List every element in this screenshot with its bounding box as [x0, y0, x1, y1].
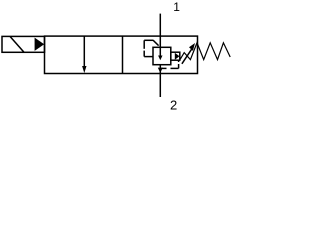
flow arrow inside relief square: [158, 47, 162, 60]
spring (zigzag): [180, 43, 230, 60]
spring chamber drain (dashed): [160, 60, 178, 68]
svg-text:2: 2: [170, 98, 177, 111]
solenoid diagonal stroke: [10, 37, 24, 53]
relief valve square body: [153, 47, 171, 64]
left position flow arrow (down): [82, 36, 86, 73]
port 1 line (top): [159, 14, 161, 48]
solenoid actuator triangle (filled, pointing right): [35, 38, 45, 51]
valve body outer box: [45, 36, 198, 73]
spring adjustment arrow: [182, 43, 195, 64]
solenoid coil box: [2, 36, 45, 52]
pilot line (dashed) tapping port 1: [144, 40, 158, 56]
svg-text:1: 1: [173, 0, 180, 14]
port 2 line (bottom): [159, 65, 161, 97]
position divider line: [122, 36, 124, 73]
poppet housing rectangle: [171, 52, 180, 60]
mid-line flow arrowhead on port 2 line: [158, 68, 163, 73]
poppet triangle (filled, pointing right): [175, 53, 180, 60]
